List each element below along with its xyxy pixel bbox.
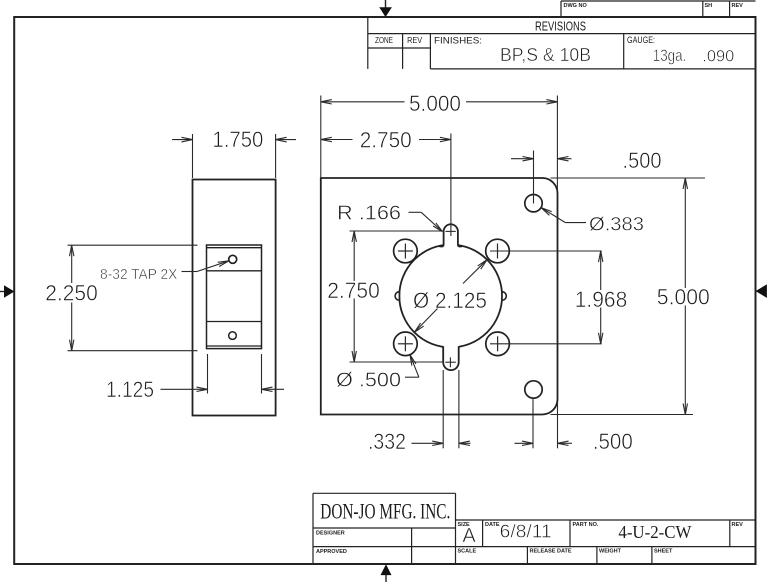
svg-text:.500: .500 [623,148,662,173]
svg-text:.090: .090 [702,47,734,66]
svg-text:SHEET: SHEET [654,549,673,555]
svg-text:1.125: 1.125 [106,377,154,402]
svg-text:SCALE: SCALE [458,549,477,555]
svg-text:FINISHES:: FINISHES: [434,35,482,46]
svg-text:DATE: DATE [485,522,500,528]
svg-text:REVISIONS: REVISIONS [535,19,586,34]
svg-text:PART NO.: PART NO. [573,522,599,528]
svg-text:5.000: 5.000 [409,91,461,116]
svg-text:REV: REV [732,3,744,9]
svg-text:6/8/11: 6/8/11 [500,522,552,542]
svg-text:Ø.383: Ø.383 [589,214,644,235]
svg-text:4-U-2-CW: 4-U-2-CW [618,522,691,542]
svg-text:5.000: 5.000 [657,285,710,310]
svg-text:.332: .332 [368,429,406,454]
svg-text:8-32 TAP 2X: 8-32 TAP 2X [100,266,177,283]
svg-text:2.750: 2.750 [327,278,380,303]
svg-text:APPROVED: APPROVED [316,549,347,555]
svg-text:Ø .500: Ø .500 [336,369,401,391]
svg-text:REV: REV [407,36,423,45]
svg-text:2.250: 2.250 [45,281,98,306]
svg-text:2.750: 2.750 [360,127,412,152]
svg-text:Ø 2.125: Ø 2.125 [413,288,487,313]
svg-text:WEIGHT: WEIGHT [599,549,622,555]
svg-text:BP,S & 10B: BP,S & 10B [500,45,591,65]
svg-text:13ga.: 13ga. [653,46,687,65]
svg-text:A: A [462,525,476,547]
svg-text:RELEASE DATE: RELEASE DATE [530,549,572,555]
svg-text:.500: .500 [593,429,633,454]
svg-text:SH: SH [705,3,713,9]
svg-text:ZONE: ZONE [375,36,393,45]
svg-text:1.968: 1.968 [575,287,628,312]
svg-text:1.750: 1.750 [212,127,263,152]
svg-text:DON-JO MFG. INC.: DON-JO MFG. INC. [320,499,450,524]
svg-text:DESIGNER: DESIGNER [316,531,345,537]
svg-text:GAUGE:: GAUGE: [627,35,655,46]
svg-text:REV: REV [732,522,744,528]
svg-text:DWG NO: DWG NO [564,3,588,9]
svg-text:R .166: R .166 [337,203,401,225]
